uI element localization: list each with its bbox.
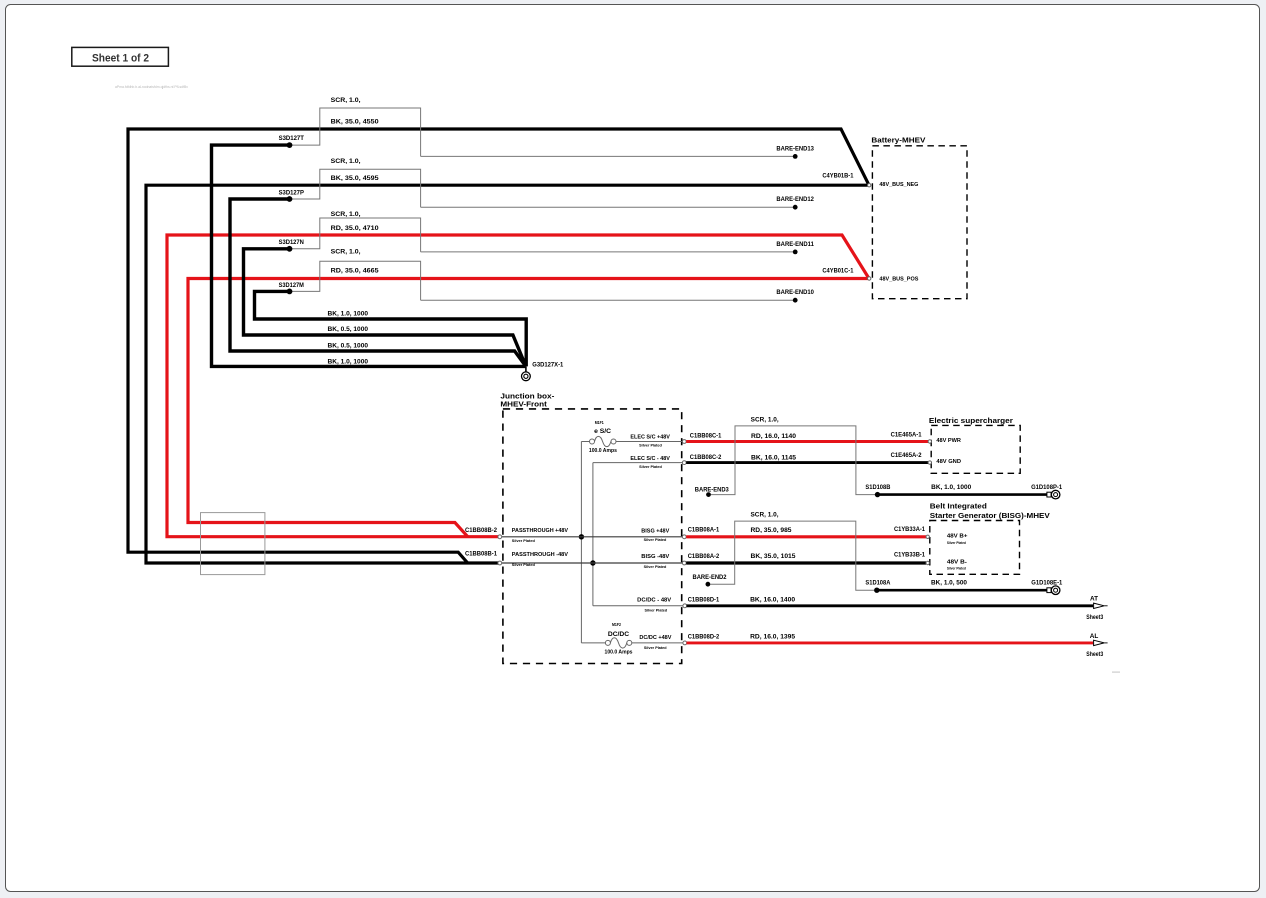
component Electric supercharger box <box>931 425 1020 473</box>
wire RD 16.0 1395 <box>687 641 1094 644</box>
svg-text:C1BB08A-1: C1BB08A-1 <box>688 527 720 534</box>
svg-text:MHEV-Front: MHEV-Front <box>500 400 547 409</box>
svg-text:BK, 1.0, 1000: BK, 1.0, 1000 <box>931 484 971 491</box>
svg-text:C1BB08A-2: C1BB08A-2 <box>688 553 720 560</box>
svg-text:C1E465A-2: C1E465A-2 <box>891 452 922 459</box>
svg-text:G3D127X-1: G3D127X-1 <box>532 362 563 369</box>
connector C1E465A-2 <box>928 461 931 464</box>
svg-text:M1F2: M1F2 <box>612 622 621 627</box>
wire BK 16.0 1145 <box>686 461 928 464</box>
svg-text:BK, 1.0, 500: BK, 1.0, 500 <box>931 580 967 587</box>
wire BK 35.0 1015 <box>686 561 926 564</box>
svg-text:48V_BUS_NEG: 48V_BUS_NEG <box>879 182 919 188</box>
ground G3D127X-1 symbol <box>522 372 531 381</box>
svg-text:C1BB08B-1: C1BB08B-1 <box>465 551 497 558</box>
splice BARE-END13 <box>793 154 798 159</box>
splice S1D108A <box>874 588 879 593</box>
wire branch S3D127M to ground <box>255 291 527 366</box>
svg-text:SCR, 1.0,: SCR, 1.0, <box>751 511 779 518</box>
svg-text:BK, 0.5, 1000: BK, 0.5, 1000 <box>328 343 369 350</box>
component Battery-MHEV box <box>872 146 967 299</box>
wire RD 16.0 1140 <box>686 440 928 443</box>
svg-text:BK, 1.0, 1000: BK, 1.0, 1000 <box>328 359 369 366</box>
svg-text:SCR, 1.0,: SCR, 1.0, <box>331 158 361 165</box>
svg-text:Silver Plated: Silver Plated <box>644 609 667 613</box>
wire fuse M1F1 left lead <box>581 441 589 443</box>
fuse M1F2 symbol <box>605 638 631 648</box>
connector C1BB08C-2 <box>682 461 686 465</box>
svg-text:Electric supercharger: Electric supercharger <box>929 416 1013 425</box>
connector C1BB08D-1 <box>683 604 687 608</box>
svg-text:BK, 35.0, 4595: BK, 35.0, 4595 <box>331 175 379 182</box>
svg-text:C1YB33B-1: C1YB33B-1 <box>894 552 925 559</box>
wire ELEC S/C +48V inside <box>616 441 683 443</box>
shield box S3D127N <box>290 218 421 252</box>
svg-text:S1D108B: S1D108B <box>865 484 890 491</box>
svg-text:S1D108A: S1D108A <box>865 580 890 587</box>
svg-text:RD, 35.0, 4665: RD, 35.0, 4665 <box>331 267 379 274</box>
connector C4YB01B-1 <box>868 184 871 187</box>
svg-text:BARE-END11: BARE-END11 <box>776 241 814 248</box>
sheet title box <box>72 47 169 66</box>
junction S3D127N <box>287 246 293 252</box>
svg-text:PASSTHROUGH -48V: PASSTHROUGH -48V <box>512 552 568 558</box>
junction S3D127M <box>287 289 293 295</box>
svg-text:aPma.fdfdhb.b.aLnodnatsfdm.qjd: aPma.fdfdhb.b.aLnodnatsfdm.qjdfhs.nf.PfL… <box>115 84 188 89</box>
wire S3D127N main RD 35.0 4710 <box>167 235 869 537</box>
svg-text:48V B+: 48V B+ <box>947 533 968 539</box>
component Junction box MHEV-Front box <box>503 409 682 664</box>
ground G1D108E-1 symbol <box>1047 586 1060 595</box>
connector C1BB08B-1 <box>498 561 502 565</box>
svg-text:48V B-: 48V B- <box>947 560 967 566</box>
svg-text:SCR, 1.0,: SCR, 1.0, <box>331 97 361 104</box>
svg-text:DC/DC - 48V: DC/DC - 48V <box>637 598 671 604</box>
svg-text:BARE-END12: BARE-END12 <box>776 196 814 203</box>
svg-text:Silver Plated: Silver Plated <box>947 541 967 545</box>
ground G3D127X-1 inner <box>524 374 528 378</box>
svg-text:Silver Plated: Silver Plated <box>644 646 667 650</box>
offsheet arrow AT <box>1094 603 1108 608</box>
svg-text:BK, 35.0, 4550: BK, 35.0, 4550 <box>331 118 379 125</box>
svg-text:Silver Plated: Silver Plated <box>512 563 536 567</box>
svg-text:BK, 0.5, 1000: BK, 0.5, 1000 <box>328 326 369 333</box>
svg-text:M1F1: M1F1 <box>595 420 604 425</box>
wire S3D127P main BK 35.0 4595 <box>146 185 868 563</box>
svg-text:C1BB08B-2: C1BB08B-2 <box>465 527 497 534</box>
connector C1BB08A-1 <box>682 535 686 539</box>
svg-text:C1YB33A-1: C1YB33A-1 <box>894 526 925 533</box>
svg-text:SCR, 1.0,: SCR, 1.0, <box>331 248 361 255</box>
connector C1BB08B-2 <box>498 535 502 539</box>
wire shield drain BARE-END13 <box>421 155 796 157</box>
svg-text:100.0 Amps: 100.0 Amps <box>589 448 617 454</box>
svg-text:C1BB08C-1: C1BB08C-1 <box>690 433 722 440</box>
svg-text:G1D108E-1: G1D108E-1 <box>1031 580 1062 587</box>
svg-text:SCR, 1.0,: SCR, 1.0, <box>331 211 361 218</box>
svg-text:S3D127P: S3D127P <box>279 189 305 196</box>
svg-text:RD, 16.0, 1395: RD, 16.0, 1395 <box>750 634 795 641</box>
connector C1BB08A-2 <box>682 561 686 565</box>
splice S1D108B <box>875 492 880 497</box>
svg-text:C1BB08D-1: C1BB08D-1 <box>688 596 720 603</box>
fuse M1F1 symbol <box>590 436 617 446</box>
svg-text:BARE-END3: BARE-END3 <box>695 486 729 493</box>
svg-text:RD, 16.0, 1140: RD, 16.0, 1140 <box>751 433 796 440</box>
wire BK 1.0 500 ground <box>877 589 1047 592</box>
splice BARE-END10 <box>793 298 798 303</box>
junction S3D127T <box>287 142 293 148</box>
wire PASSTHROUGH +48V <box>502 536 683 538</box>
svg-text:BARE-END2: BARE-END2 <box>693 574 727 581</box>
svg-text:C1BB08D-2: C1BB08D-2 <box>688 634 720 641</box>
wire shield drain BARE-END12 <box>421 206 796 208</box>
svg-text:BK, 16.0, 1145: BK, 16.0, 1145 <box>751 454 796 461</box>
stray mark <box>1112 672 1120 673</box>
wire DC/DC -48V inside <box>593 605 684 607</box>
splice BARE-END11 <box>793 250 798 255</box>
wire shield drain BARE-END10 <box>421 299 796 301</box>
svg-text:BISG +48V: BISG +48V <box>641 528 669 534</box>
svg-text:G1D108P-1: G1D108P-1 <box>1031 484 1062 491</box>
wire BK 16.0 1400 <box>687 604 1094 607</box>
svg-text:100.0 Amps: 100.0 Amps <box>605 649 633 655</box>
splice BARE-END12 <box>793 205 798 210</box>
offsheet arrow AL <box>1094 640 1108 645</box>
svg-text:AL: AL <box>1090 633 1099 640</box>
shield box S3D127M <box>290 261 421 300</box>
svg-text:S3D127T: S3D127T <box>279 135 304 142</box>
svg-text:Battery-MHEV: Battery-MHEV <box>871 136 925 145</box>
connector C1YB33A-1 <box>926 535 929 538</box>
svg-text:Belt Integrated: Belt Integrated <box>930 501 988 510</box>
connector C1E465A-1 <box>928 440 931 443</box>
svg-text:e S/C: e S/C <box>594 428 611 435</box>
junction passthrough-48 <box>590 560 595 565</box>
svg-text:Silver Plated: Silver Plated <box>947 567 967 571</box>
svg-text:48V GND: 48V GND <box>936 459 961 465</box>
splice BARE-END2 <box>706 582 711 587</box>
svg-text:S3D127M: S3D127M <box>279 282 304 289</box>
svg-text:ELEC S/C - 48V: ELEC S/C - 48V <box>630 456 670 462</box>
shield box BISG <box>710 521 874 590</box>
svg-text:Sheet 1 of 2: Sheet 1 of 2 <box>92 53 149 65</box>
svg-text:RD, 35.0, 4710: RD, 35.0, 4710 <box>331 225 379 232</box>
svg-text:DC/DC: DC/DC <box>608 631 630 638</box>
svg-text:Silver Plated: Silver Plated <box>644 565 667 569</box>
svg-text:Silver Plated: Silver Plated <box>639 444 662 448</box>
svg-text:S3D127N: S3D127N <box>279 239 305 246</box>
wire DC/DC +48V inside <box>632 642 684 644</box>
svg-text:Silver Plated: Silver Plated <box>644 538 667 542</box>
svg-text:C1E465A-1: C1E465A-1 <box>891 431 922 438</box>
connector C4YB01C-1 <box>868 277 871 280</box>
svg-text:Sheet3: Sheet3 <box>1086 614 1103 621</box>
svg-text:BK, 1.0, 1000: BK, 1.0, 1000 <box>328 311 369 318</box>
svg-text:C1BB08C-2: C1BB08C-2 <box>690 454 722 461</box>
svg-text:BK, 35.0, 1015: BK, 35.0, 1015 <box>751 553 796 560</box>
shield box S3D127T <box>290 108 421 156</box>
svg-text:BISG -48V: BISG -48V <box>641 554 669 560</box>
inline connector ghost box <box>201 513 265 575</box>
ground G3D127X-1 stem <box>525 366 527 371</box>
wire M1F1 feed vertical <box>580 442 582 643</box>
wire S3D127M main RD 35.0 4665 <box>188 279 868 537</box>
wire branch S3D127N to ground <box>244 249 526 366</box>
wire branch S3D127P to ground <box>230 199 526 366</box>
wire S3D127T main BK 35.0 4550 <box>128 129 869 563</box>
shield box S3D127P <box>290 169 421 207</box>
component BISG box <box>930 521 1020 575</box>
wire PASSTHROUGH -48V <box>502 562 683 564</box>
svg-text:BARE-END10: BARE-END10 <box>776 289 814 296</box>
shield box eSC <box>711 426 875 495</box>
svg-text:Silver Plated: Silver Plated <box>512 539 536 543</box>
svg-text:C4YB01C-1: C4YB01C-1 <box>822 267 853 274</box>
wire ELEC S/C -48V inside <box>593 463 683 606</box>
svg-text:48V_BUS_POS: 48V_BUS_POS <box>879 276 918 282</box>
svg-text:BARE-END13: BARE-END13 <box>776 145 814 152</box>
svg-text:RD, 35.0, 985: RD, 35.0, 985 <box>751 527 792 534</box>
connector C1BB08D-2 <box>683 641 687 645</box>
junction S3D127P <box>287 196 293 202</box>
svg-text:AT: AT <box>1090 596 1098 603</box>
svg-text:Starter Generator (BISG)-MHEV: Starter Generator (BISG)-MHEV <box>930 511 1050 520</box>
wire RD 35.0 985 <box>686 535 926 538</box>
svg-text:C4YB01B-1: C4YB01B-1 <box>822 172 853 179</box>
svg-text:Sheet3: Sheet3 <box>1086 651 1103 658</box>
svg-text:Silver Plated: Silver Plated <box>639 465 662 469</box>
splice BARE-END3 <box>706 492 711 497</box>
junction passthrough+48 to fuse <box>579 534 584 539</box>
connector C1BB08C-1 <box>682 440 686 444</box>
svg-text:BK, 16.0, 1400: BK, 16.0, 1400 <box>750 597 795 604</box>
wire BK 1.0 1000 ground <box>878 493 1047 496</box>
svg-text:48V PWR: 48V PWR <box>936 438 961 444</box>
svg-text:DC/DC +48V: DC/DC +48V <box>639 635 671 641</box>
wire shield drain BARE-END11 <box>421 251 796 253</box>
svg-text:SCR, 1.0,: SCR, 1.0, <box>751 416 779 423</box>
connector C1YB33B-1 <box>926 561 929 564</box>
svg-text:PASSTHROUGH +48V: PASSTHROUGH +48V <box>512 528 568 534</box>
wire branch S3D127T to ground <box>212 145 526 366</box>
svg-text:ELEC S/C +48V: ELEC S/C +48V <box>630 435 670 441</box>
wire fuse M1F2 left lead <box>581 642 605 644</box>
ground G1D108P-1 symbol <box>1047 490 1060 499</box>
